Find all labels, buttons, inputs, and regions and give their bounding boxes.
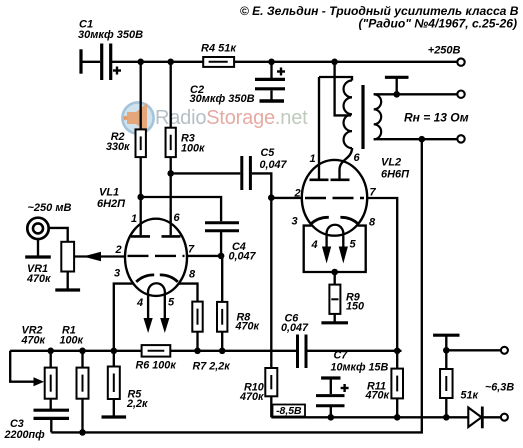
svg-text:~6,3В: ~6,3В xyxy=(485,381,514,393)
label C2 value 30мкф 350В xyxy=(190,93,255,105)
label VL2 pin 2 xyxy=(294,188,301,200)
wire R9 top lead xyxy=(334,272,336,285)
svg-text:2,2к: 2,2к xyxy=(126,398,148,410)
resistor R9 xyxy=(329,285,340,314)
wire R3 node to C5 xyxy=(171,172,241,174)
label C6 xyxy=(285,312,300,324)
terminal output bottom xyxy=(457,135,464,142)
label C3 xyxy=(10,418,24,430)
tube VL1 envelope xyxy=(125,219,187,296)
svg-text:470к: 470к xyxy=(235,320,260,332)
label VL1 pin 1 xyxy=(131,213,137,225)
wire 51к bottom lead xyxy=(445,398,447,417)
label ~6,3В xyxy=(485,381,514,393)
svg-text:("Радио" №4/1967, с.25-26): ("Радио" №4/1967, с.25-26) xyxy=(358,17,517,31)
label VL2 pin 5 xyxy=(350,238,357,250)
label R11 xyxy=(367,380,386,392)
label VR1 value 470к xyxy=(26,273,51,285)
wire VL2 grid7 to R11 xyxy=(367,198,397,351)
ground under C2 xyxy=(260,99,285,102)
terminal output top xyxy=(457,91,464,98)
wire anode1 node to C4 xyxy=(141,197,221,221)
label C7 value 10мкф 15В xyxy=(331,361,389,373)
terminal +250В xyxy=(457,58,464,65)
wire feedback bottom line xyxy=(51,139,422,432)
wire R1 top lead xyxy=(81,351,83,368)
node grid7-C4-R8 junction xyxy=(218,253,225,260)
label C6 value 0,047 xyxy=(281,322,309,334)
potentiometer VR2 xyxy=(45,368,57,399)
label VR2 xyxy=(22,324,43,336)
wire -8.5V rail xyxy=(271,416,468,418)
node junction C2 top xyxy=(268,59,275,66)
wire jack to VR1 xyxy=(49,228,68,242)
label VL1 pin 2 xyxy=(115,244,122,256)
node 51к top junction xyxy=(443,347,450,354)
svg-text:~250 мВ: ~250 мВ xyxy=(28,202,72,214)
wire R3 bottom lead xyxy=(170,157,172,173)
wire R11 leads xyxy=(396,351,398,418)
svg-text:4: 4 xyxy=(311,239,318,251)
node C5-R10-grid2 junction xyxy=(268,194,275,201)
title line 2 xyxy=(358,17,517,31)
wire VR2 bottom lead xyxy=(50,399,52,410)
wire +250V rail left of R4 xyxy=(112,61,203,63)
svg-text:-8,5В: -8,5В xyxy=(276,406,302,417)
wire R3 top lead xyxy=(170,62,172,128)
svg-text:6Н2П: 6Н2П xyxy=(97,198,126,210)
label input ~250 мВ xyxy=(28,202,72,214)
wire VL2 anode6 lead xyxy=(340,148,353,180)
VL1 grid dashed line xyxy=(128,255,185,257)
wire anode link top xyxy=(319,77,352,81)
svg-text:10мкф 15В: 10мкф 15В xyxy=(331,361,389,373)
svg-text:6Н6П: 6Н6П xyxy=(381,168,410,180)
label C5 xyxy=(261,147,276,159)
node junction R2 top xyxy=(137,59,144,66)
node C7 bottom junction xyxy=(328,414,335,421)
node R11 top junction xyxy=(394,348,401,355)
svg-text:150: 150 xyxy=(346,300,364,312)
resistor R7 xyxy=(192,302,202,332)
label R2 value 330к xyxy=(106,141,130,153)
tube VL2 envelope xyxy=(302,160,367,236)
svg-text:R4 51к: R4 51к xyxy=(201,42,237,54)
label VL1 pin 8 xyxy=(189,269,196,281)
wire R8 bottom lead xyxy=(221,332,223,351)
transformer primary winding xyxy=(344,81,352,149)
diode VD1 xyxy=(468,407,482,429)
wire VR2 top lead xyxy=(50,351,52,368)
svg-text:30мкф 350В: 30мкф 350В xyxy=(78,29,143,41)
svg-text:5: 5 xyxy=(168,297,175,309)
svg-text:RadioStorage.net: RadioStorage.net xyxy=(155,107,308,129)
wire VL1 anode6 lead xyxy=(170,173,172,235)
label R8 value 470к xyxy=(235,320,260,332)
label VL2 pin 4 xyxy=(311,239,318,251)
svg-text:8: 8 xyxy=(369,217,376,229)
VL2 cathode arc left xyxy=(311,217,329,224)
potentiometer VR1 xyxy=(61,242,74,272)
node VL2 cathodes junction xyxy=(331,269,338,276)
node R8 bottom junction xyxy=(219,348,226,355)
node junction transformer tap xyxy=(331,59,338,66)
wire VL1 anode1 lead xyxy=(140,197,142,235)
label VL1 pin 5 xyxy=(168,297,175,309)
svg-text:R7 2,2к: R7 2,2к xyxy=(193,360,231,372)
capacitor C7 xyxy=(316,384,349,417)
wire bus left segment xyxy=(10,350,141,352)
node R5 top junction xyxy=(111,348,118,355)
node feedback tap junction xyxy=(419,136,426,143)
svg-text:0,047: 0,047 xyxy=(281,322,309,334)
wire VR1 wiper to VL1 grid xyxy=(74,255,125,257)
resistor R4 xyxy=(203,57,234,67)
wire VL1 cathode8 to R7 xyxy=(179,284,198,302)
VL2 grid dashed line xyxy=(305,197,364,199)
label VL2 type 6Н6П xyxy=(381,168,410,180)
chassis bar above secondary xyxy=(385,77,409,94)
wire VL1 cathode3 to R5 xyxy=(114,284,134,351)
node secondary top junction xyxy=(393,91,400,98)
node R1 bottom junction xyxy=(79,429,86,436)
VL1 heater arrow pin4 xyxy=(144,294,153,333)
label VL2 xyxy=(381,157,401,169)
svg-text:100к: 100к xyxy=(60,334,84,346)
VL1 heater arc xyxy=(148,283,165,294)
wire R1 bottom lead xyxy=(81,399,83,433)
label R6 100к xyxy=(136,359,177,371)
label C4 xyxy=(232,241,246,253)
svg-text:Rн = 13 Ом: Rн = 13 Ом xyxy=(404,111,469,125)
svg-text:470к: 470к xyxy=(365,390,390,402)
resistor R6 xyxy=(142,345,171,357)
resistor R3 xyxy=(166,128,176,157)
label VL1 pin 4 xyxy=(136,297,143,309)
label VL1 pin 3 xyxy=(114,268,120,280)
svg-text:0,047: 0,047 xyxy=(260,159,288,171)
label R5 value 2,2к xyxy=(126,398,148,410)
VL2 cathode arc right xyxy=(340,217,358,224)
label R11 value 470к xyxy=(365,390,390,402)
wire VL1 grid7 to R8 xyxy=(187,255,221,257)
label VL2 pin 6 xyxy=(354,152,361,164)
VL2 heater arrow pin5 xyxy=(339,236,348,264)
label C7 xyxy=(334,349,349,361)
wire to heater terminal top xyxy=(446,349,501,351)
label R5 xyxy=(128,388,143,400)
wire bus right segment xyxy=(308,350,402,352)
svg-text:0,047: 0,047 xyxy=(229,250,257,262)
wire VL2 cathode8 down xyxy=(335,226,366,272)
VL1 heater arrow pin5 xyxy=(160,294,169,333)
wire secondary top to terminal xyxy=(374,93,458,95)
svg-text:VL1: VL1 xyxy=(99,186,119,198)
svg-text:2: 2 xyxy=(115,244,122,256)
wire C5 to VL2 grid xyxy=(252,173,271,197)
svg-text:7: 7 xyxy=(370,187,377,199)
label VL1 pin 6 xyxy=(174,212,181,224)
label R3 xyxy=(181,132,195,144)
resistor R1 xyxy=(77,368,89,399)
label R9 value 150 xyxy=(346,300,364,312)
svg-text:VL2: VL2 xyxy=(381,157,401,169)
wire R10 bottom lead xyxy=(270,396,272,417)
wire R5 top lead xyxy=(113,351,115,367)
VR1 wiper arrow xyxy=(83,252,101,261)
svg-text:2: 2 xyxy=(294,188,301,200)
label C3 value 2200пф xyxy=(4,429,46,441)
wire C3 bottom lead xyxy=(50,420,52,433)
capacitor C1 xyxy=(81,44,121,81)
label R8 xyxy=(237,311,251,323)
VL2 anode plate 6 xyxy=(331,179,350,182)
svg-text:1: 1 xyxy=(131,213,137,225)
title line 1 xyxy=(240,4,519,18)
label C1 value 30мкф 350В xyxy=(78,29,143,41)
label VL2 pin 7 xyxy=(370,187,377,199)
svg-text:R6 100к: R6 100к xyxy=(136,359,177,371)
svg-text:1: 1 xyxy=(310,153,316,165)
label C1 xyxy=(79,19,93,31)
VL1 anode plate 1 xyxy=(131,235,150,238)
label R10 value 470к xyxy=(239,391,264,403)
label 51к xyxy=(461,389,479,401)
label VL1 xyxy=(99,186,119,198)
resistor R10 xyxy=(265,368,277,396)
svg-text:470к: 470к xyxy=(26,273,51,285)
wire diode to terminal xyxy=(482,416,501,418)
ground under R9 xyxy=(321,314,348,323)
VL1 anode plate 6 xyxy=(162,235,181,238)
VL1 cathode arc right xyxy=(160,275,178,282)
wire VL2 anode1 lead xyxy=(318,77,320,180)
svg-text:100к: 100к xyxy=(181,142,205,154)
chassis bar above 51к xyxy=(433,335,459,350)
label VL1 pin 7 xyxy=(188,244,195,256)
svg-text:6: 6 xyxy=(174,212,181,224)
label VL2 pin 3 xyxy=(292,216,298,228)
ground under VR1 xyxy=(55,272,80,291)
svg-text:4: 4 xyxy=(136,297,143,309)
capacitor C2 xyxy=(255,62,285,100)
node R3-C5-anode6 junction xyxy=(167,170,174,177)
wire R2 bottom lead xyxy=(140,157,142,197)
svg-text:51к: 51к xyxy=(461,389,479,401)
wire bus to VR2 wiper xyxy=(10,351,36,382)
label C2 xyxy=(190,84,204,96)
transformer secondary winding xyxy=(374,94,382,139)
VL2 heater arc xyxy=(326,225,343,236)
label VR2 value 470к xyxy=(21,334,46,346)
node junction R3 top xyxy=(167,59,174,66)
svg-text:3: 3 xyxy=(114,268,120,280)
watermark RadioStorage.net logo xyxy=(122,102,308,133)
wire bus middle segment xyxy=(170,350,296,352)
svg-text:C7: C7 xyxy=(334,349,349,361)
transformer core xyxy=(361,85,364,149)
label VL1 type 6Н2П xyxy=(97,198,126,210)
label +250В xyxy=(428,44,461,56)
label R1 value 100к xyxy=(60,334,84,346)
node R7 bottom junction xyxy=(194,348,201,355)
node VL1 anode1 junction xyxy=(137,194,144,201)
label R9 xyxy=(346,291,360,303)
terminal heater bottom xyxy=(501,414,508,421)
label R10 xyxy=(244,381,264,393)
label R4 51к xyxy=(201,42,237,54)
resistor R5 xyxy=(108,367,120,400)
VL1 cathode arc left xyxy=(136,275,154,282)
svg-text:8: 8 xyxy=(189,269,196,281)
capacitor C4 xyxy=(205,223,239,256)
wire VL2 cathode3 down xyxy=(304,226,335,272)
node R11 bottom junction xyxy=(394,414,401,421)
svg-text:C5: C5 xyxy=(261,147,276,159)
VL2 heater arrow pin4 xyxy=(322,236,331,264)
svg-text:470к: 470к xyxy=(21,334,46,346)
capacitor C6 xyxy=(298,335,307,369)
wire R7 bottom lead xyxy=(196,332,198,351)
wire R10 top lead xyxy=(270,198,272,368)
ground under R5 xyxy=(102,399,127,417)
wire 51к leads xyxy=(445,350,447,369)
ground under jack xyxy=(25,239,51,257)
svg-text:5: 5 xyxy=(350,238,357,250)
wire +250V rail right of R4 xyxy=(234,61,457,63)
wire secondary bottom to terminal xyxy=(374,138,458,140)
label R7 2,2к xyxy=(193,360,231,372)
svg-text:2200пф: 2200пф xyxy=(4,429,46,441)
svg-text:330к: 330к xyxy=(106,141,130,153)
wire transformer center tap xyxy=(335,62,351,116)
node diode junction xyxy=(443,414,450,421)
label C4 value 0,047 xyxy=(229,250,257,262)
resistor R8 xyxy=(217,302,227,332)
svg-text:3: 3 xyxy=(292,216,298,228)
capacitor C5 xyxy=(242,156,251,190)
node VR2 top junction xyxy=(47,348,54,355)
VL2 anode plate 1 xyxy=(310,179,329,182)
svg-text:470к: 470к xyxy=(239,391,264,403)
label R2 xyxy=(111,131,125,143)
svg-text:6: 6 xyxy=(354,152,361,164)
label C5 value 0,047 xyxy=(260,159,288,171)
wire R8 top lead xyxy=(221,256,223,302)
VR2 wiper arrow xyxy=(34,377,45,386)
label R3 value 100к xyxy=(181,142,205,154)
terminal heater top xyxy=(501,347,508,354)
capacitor C3 xyxy=(34,410,70,418)
label R1 xyxy=(62,324,76,336)
wire grid2 node to VL2 xyxy=(271,197,302,199)
wire R2 top lead xyxy=(140,62,142,130)
label VL2 pin 1 xyxy=(310,153,316,165)
label Rн = 13 Ом xyxy=(404,111,469,125)
label VL2 pin 8 xyxy=(369,217,376,229)
wire primary bottom to pin6 xyxy=(351,148,353,150)
node R1 top junction xyxy=(79,348,86,355)
svg-text:30мкф 350В: 30мкф 350В xyxy=(190,93,255,105)
input jack xyxy=(27,218,48,239)
label box -8,5В xyxy=(273,405,306,418)
svg-text:7: 7 xyxy=(188,244,195,256)
svg-text:+250В: +250В xyxy=(428,44,461,56)
label VR1 xyxy=(27,263,48,275)
chassis bar above C7 xyxy=(321,378,340,394)
resistor 51к xyxy=(440,369,453,398)
resistor R2 xyxy=(136,129,146,157)
resistor R11 xyxy=(391,369,403,399)
